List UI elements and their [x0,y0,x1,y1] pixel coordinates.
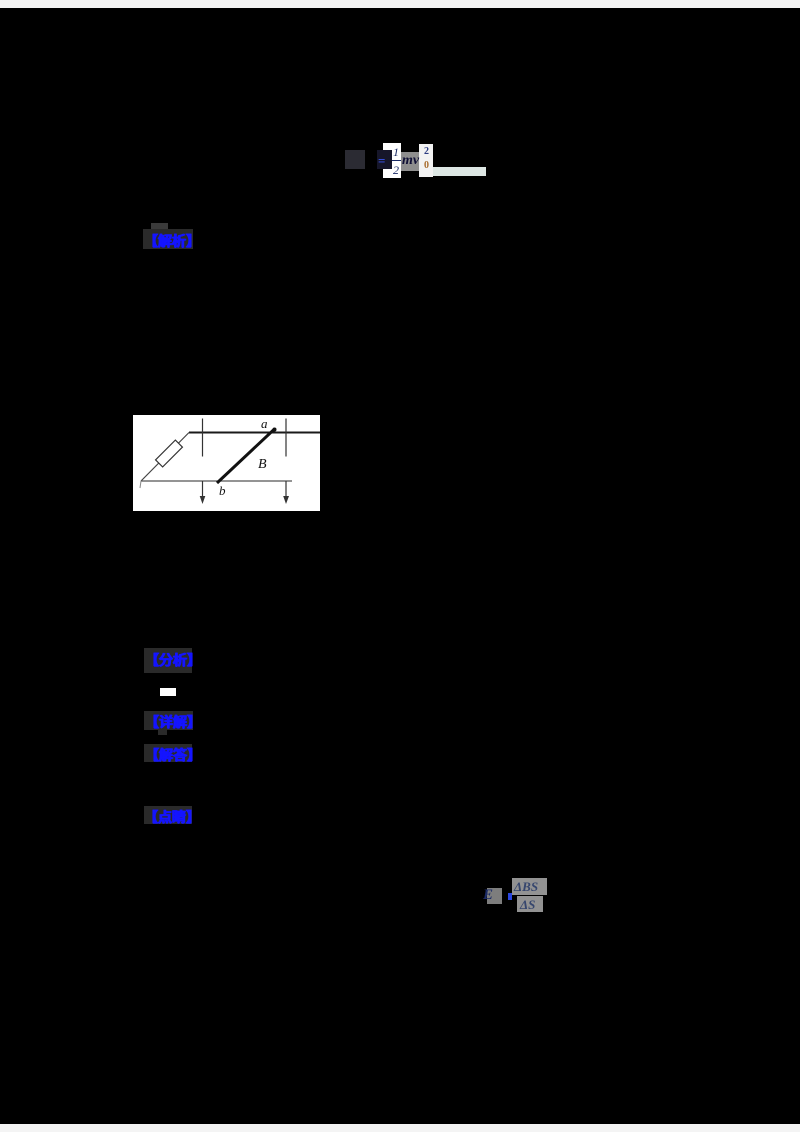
svg-text:B: B [258,457,267,472]
svg-text:a: a [261,416,268,431]
svg-text:b: b [219,483,226,498]
